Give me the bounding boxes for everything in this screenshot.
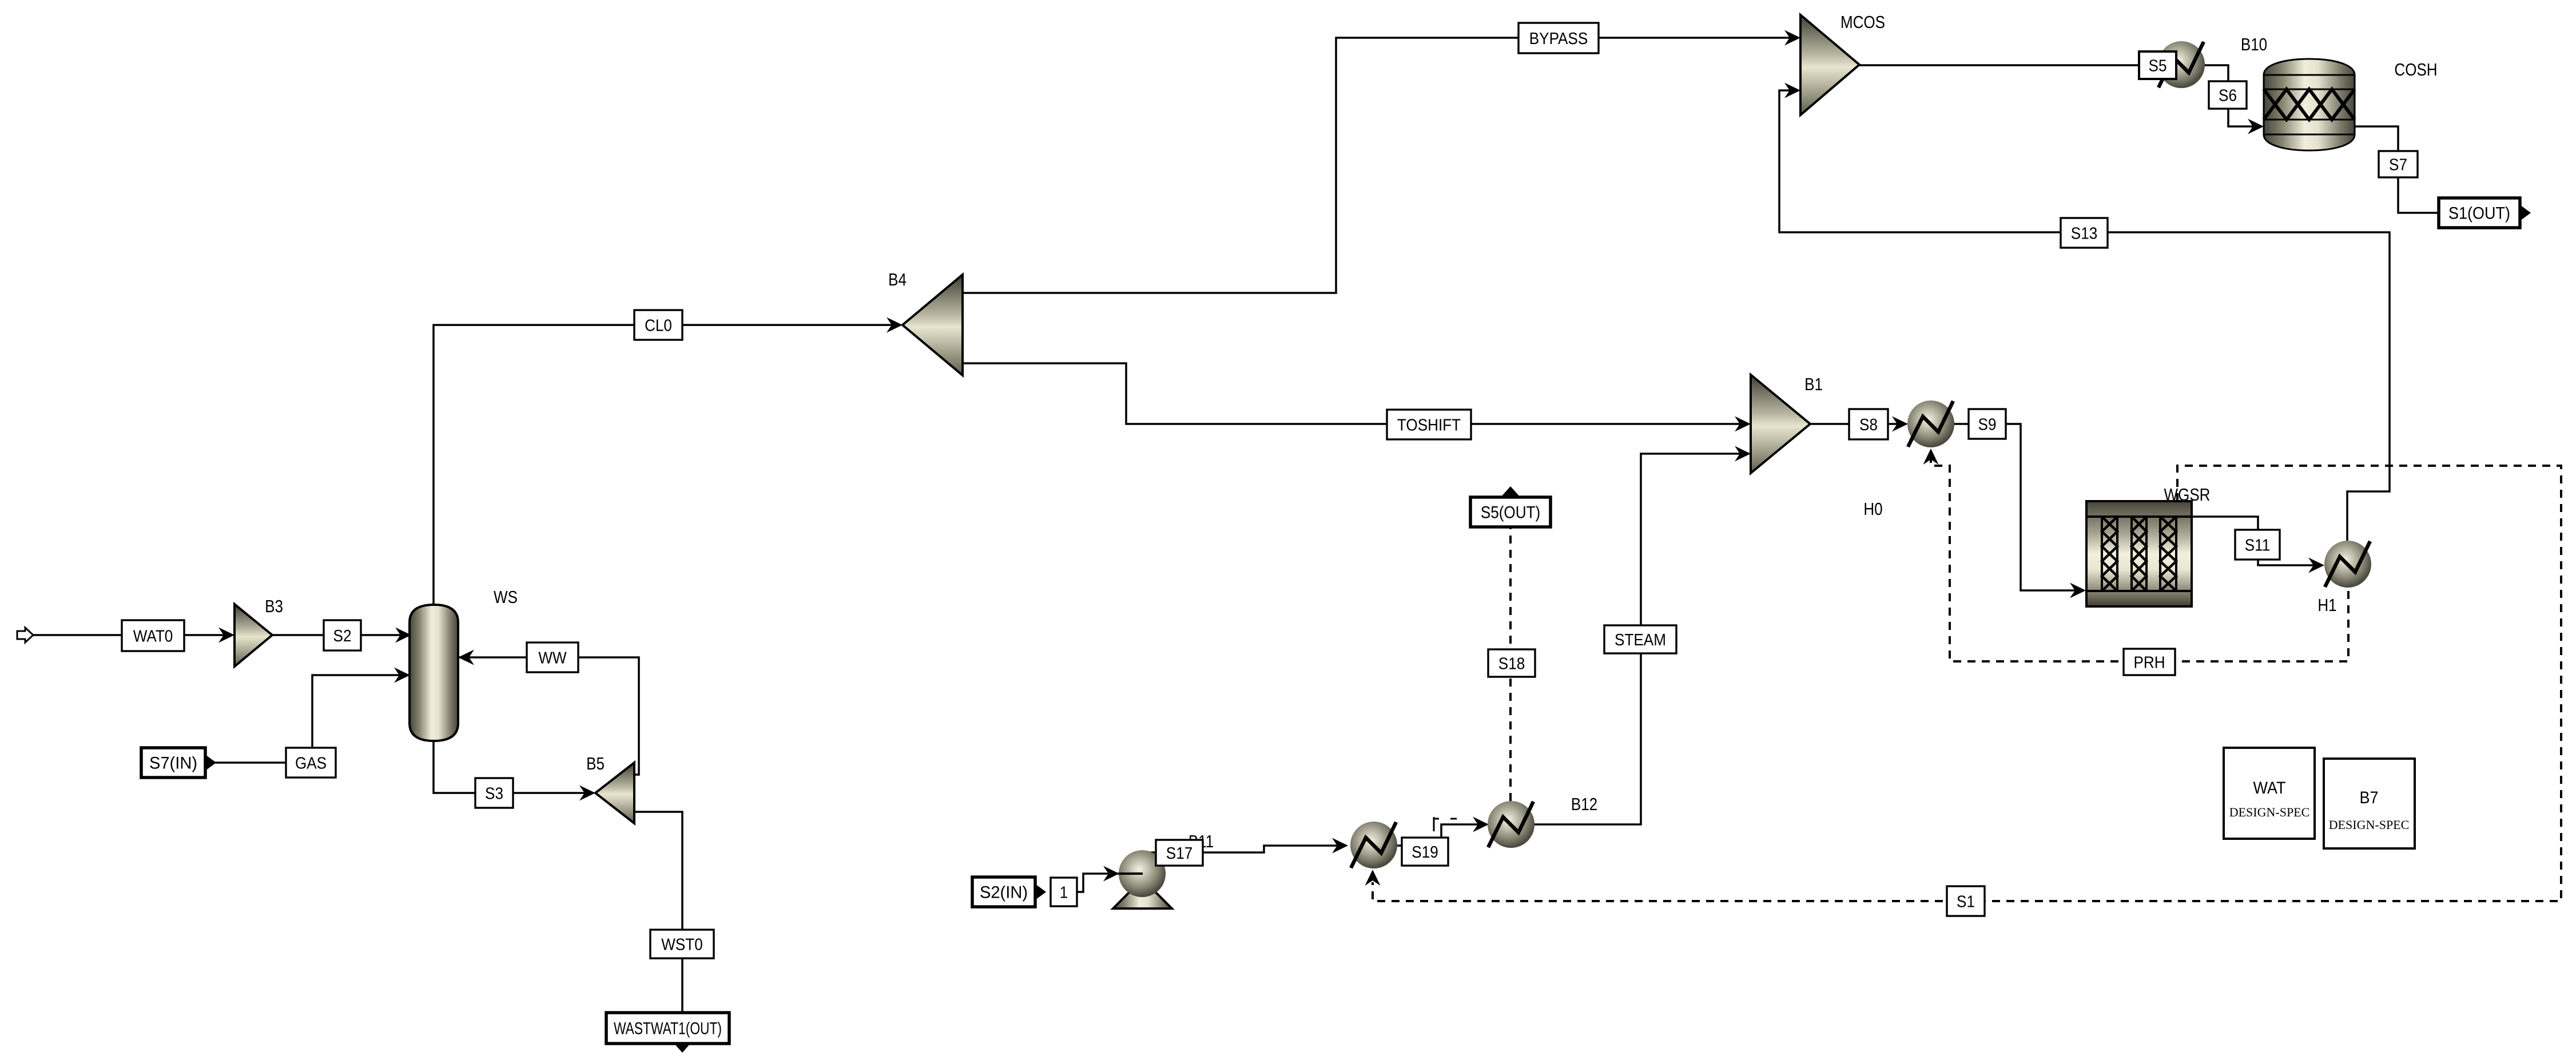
- svg-text:H0: H0: [1863, 499, 1882, 519]
- svg-text:S7(IN): S7(IN): [149, 753, 197, 772]
- svg-text:H1: H1: [2317, 596, 2336, 616]
- svg-text:WST0: WST0: [661, 935, 702, 954]
- svg-text:S6: S6: [2219, 86, 2237, 105]
- svg-text:B3: B3: [265, 597, 283, 617]
- svg-text:S5: S5: [2149, 56, 2167, 75]
- svg-text:DESIGN-SPEC: DESIGN-SPEC: [2229, 805, 2310, 819]
- svg-text:B5: B5: [586, 754, 605, 774]
- svg-text:S9: S9: [1978, 415, 1997, 434]
- svg-text:WS: WS: [494, 588, 518, 608]
- svg-text:S17: S17: [1166, 844, 1192, 863]
- svg-text:S5(OUT): S5(OUT): [1481, 503, 1540, 522]
- svg-text:S13: S13: [2071, 224, 2097, 243]
- svg-text:1: 1: [1060, 883, 1068, 902]
- svg-text:B12: B12: [1571, 795, 1597, 815]
- svg-text:WASTWAT1(OUT): WASTWAT1(OUT): [614, 1018, 722, 1038]
- svg-text:S11: S11: [2245, 536, 2270, 554]
- svg-text:WAT: WAT: [2253, 779, 2286, 798]
- svg-text:S19: S19: [1412, 843, 1438, 862]
- svg-text:BYPASS: BYPASS: [1529, 29, 1588, 48]
- svg-text:WGSR: WGSR: [2164, 485, 2211, 505]
- svg-text:S2: S2: [333, 626, 352, 645]
- svg-text:TOSHIFT: TOSHIFT: [1397, 415, 1461, 434]
- svg-text:COSH: COSH: [2394, 60, 2437, 80]
- svg-text:S1(OUT): S1(OUT): [2448, 204, 2510, 223]
- svg-text:S1: S1: [1957, 892, 1975, 911]
- svg-text:STEAM: STEAM: [1615, 630, 1666, 649]
- svg-text:CL0: CL0: [645, 316, 672, 335]
- svg-text:B4: B4: [888, 270, 907, 290]
- svg-text:B10: B10: [2241, 35, 2267, 55]
- svg-text:DESIGN-SPEC: DESIGN-SPEC: [2329, 818, 2410, 832]
- svg-text:S2(IN): S2(IN): [980, 883, 1028, 902]
- svg-text:S18: S18: [1498, 654, 1525, 673]
- svg-text:WW: WW: [538, 648, 566, 667]
- svg-text:WAT0: WAT0: [133, 626, 173, 645]
- svg-text:S3: S3: [485, 784, 503, 803]
- svg-text:B1: B1: [1804, 375, 1823, 395]
- svg-text:PRH: PRH: [2133, 653, 2165, 672]
- svg-text:MCOS: MCOS: [1840, 13, 1885, 33]
- svg-text:S7: S7: [2389, 155, 2407, 174]
- svg-text:B7: B7: [2359, 788, 2378, 808]
- svg-text:GAS: GAS: [295, 753, 327, 772]
- svg-text:S8: S8: [1859, 415, 1878, 434]
